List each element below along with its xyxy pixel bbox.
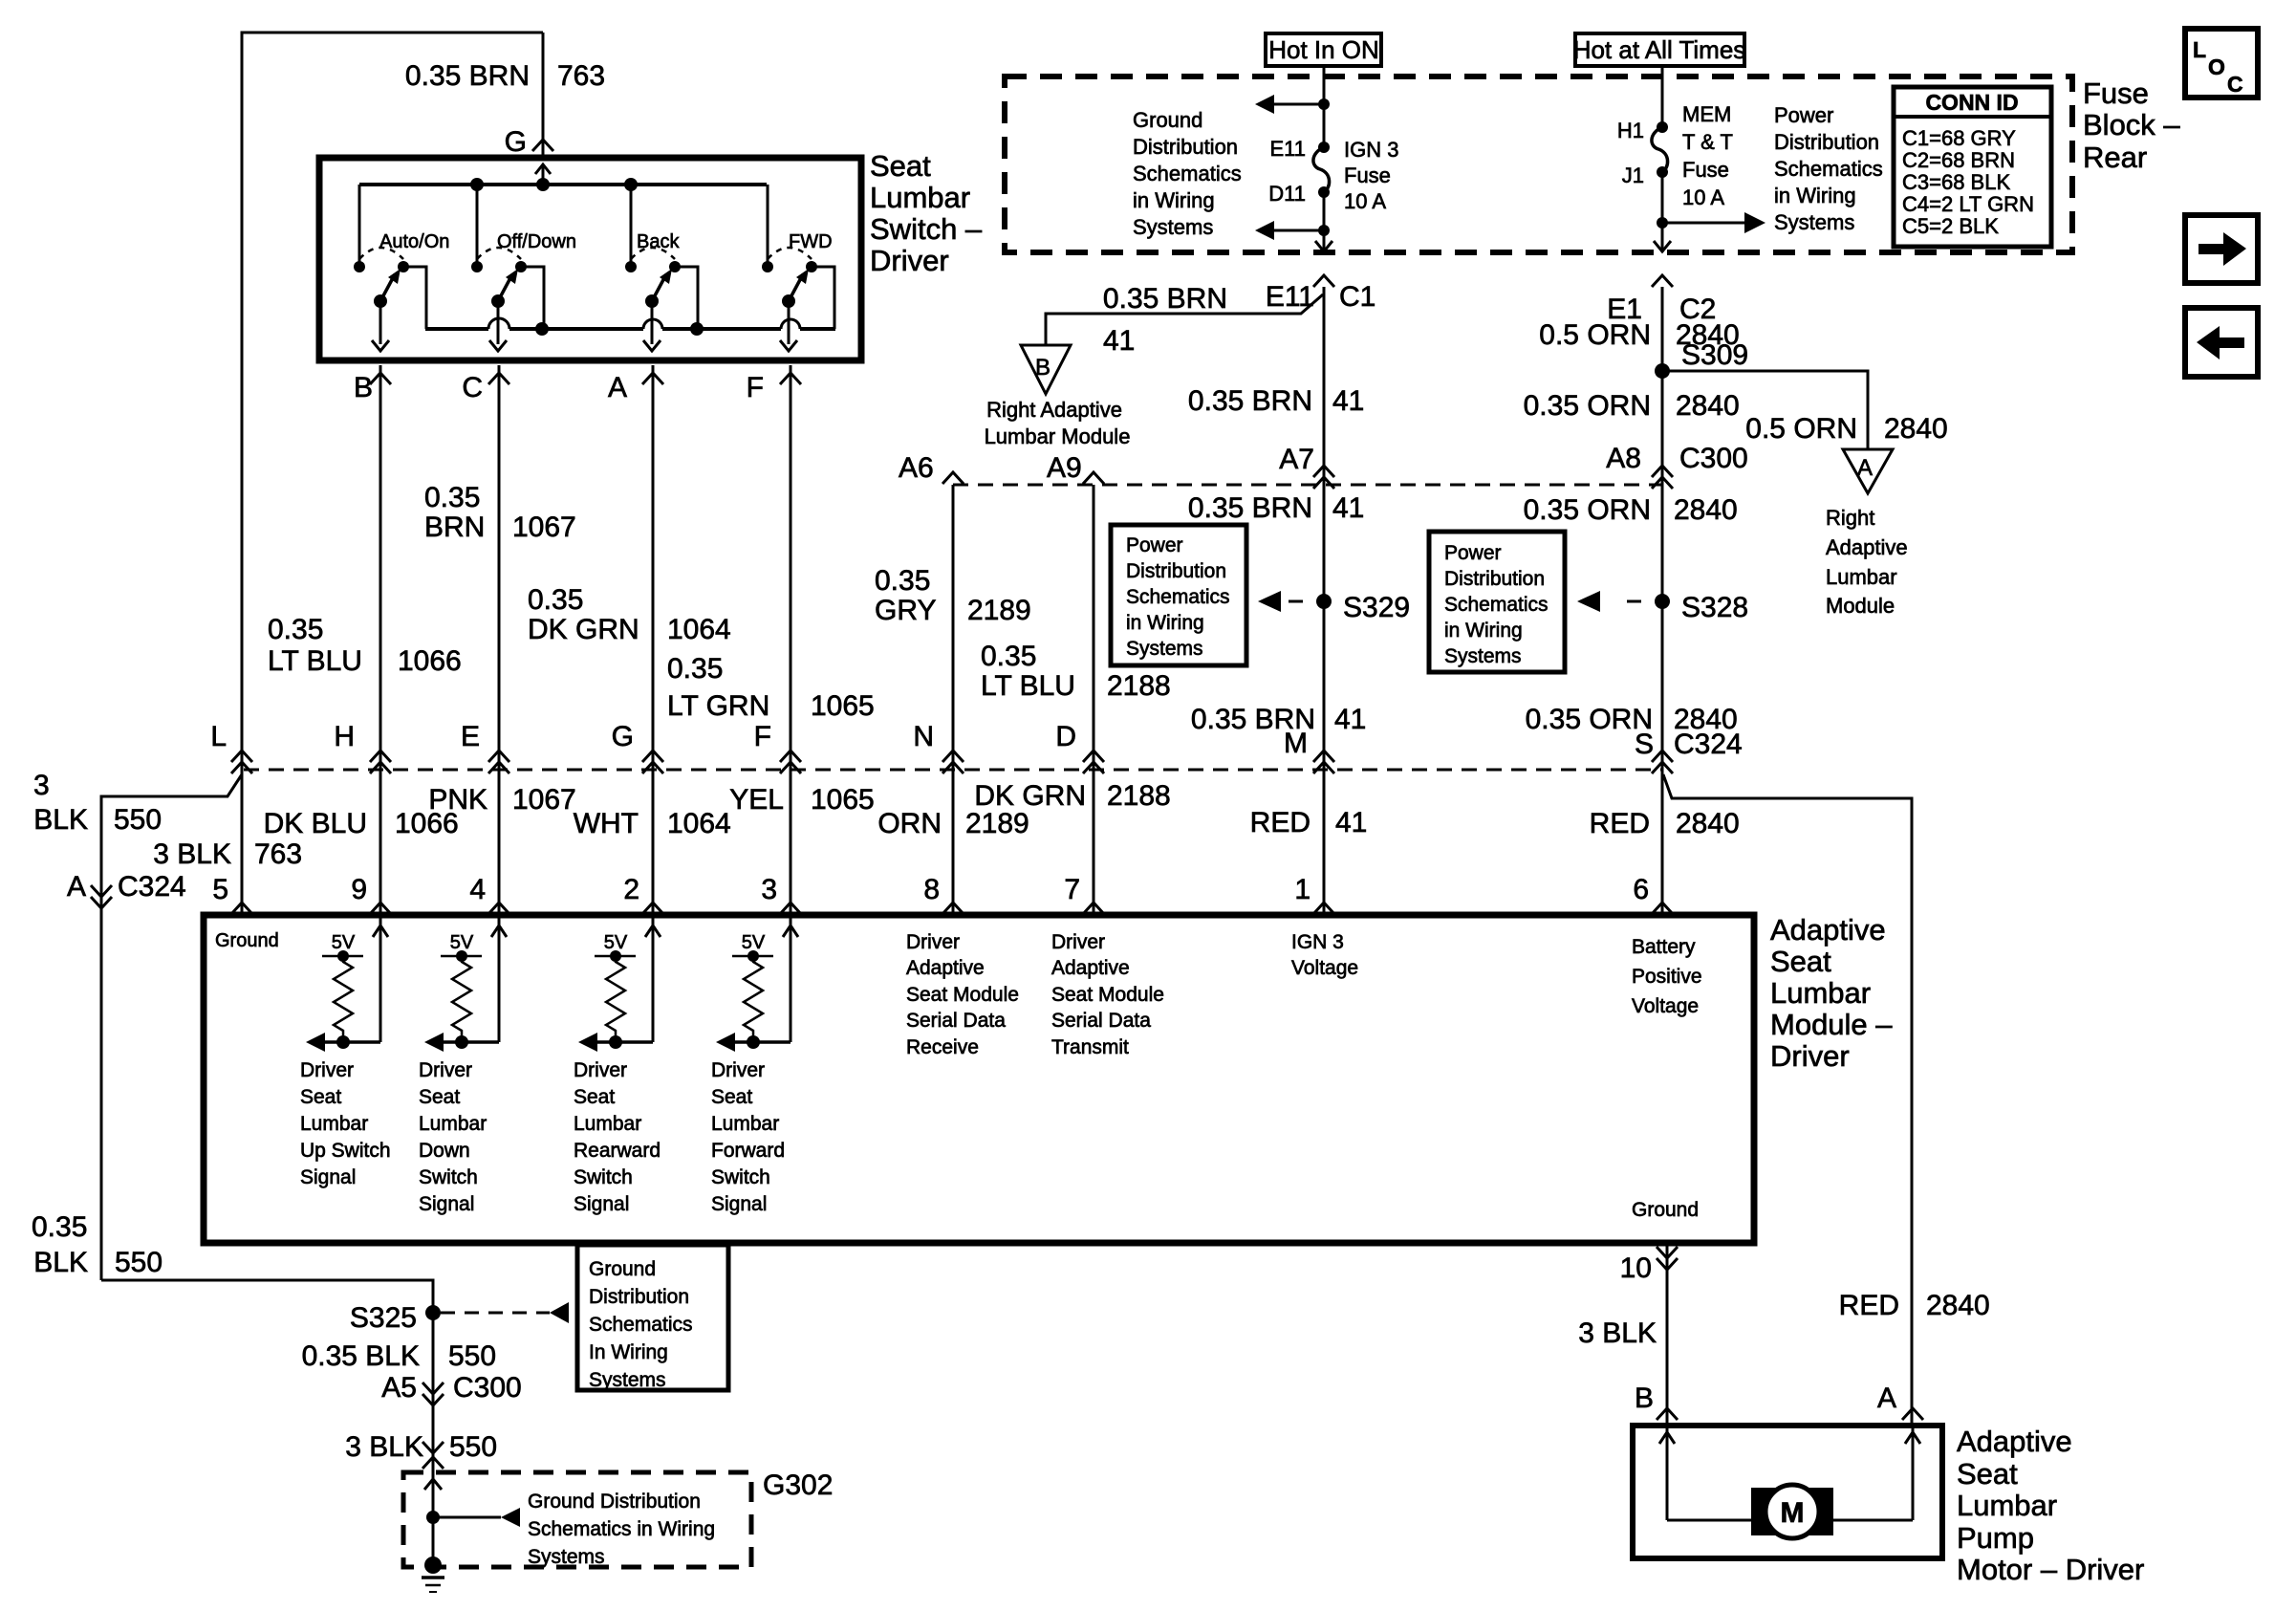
svg-text:A9: A9: [1047, 452, 1082, 484]
svg-text:Fuse: Fuse: [1344, 163, 1391, 187]
svg-text:C4=2 LT GRN: C4=2 LT GRN: [1902, 192, 2034, 216]
switch pin B chevron: [370, 373, 391, 384]
motor pin B chevron: [1657, 1408, 1678, 1420]
svg-text:5V: 5V: [742, 932, 766, 953]
wire C2 down to S: [1661, 287, 1664, 770]
switch pin A chevron: [642, 373, 663, 384]
svg-text:41: 41: [1335, 807, 1367, 838]
svg-text:in Wiring: in Wiring: [1774, 184, 1856, 207]
svg-text:41: 41: [1332, 385, 1364, 417]
svg-text:Signal: Signal: [711, 1193, 767, 1215]
connector chevron E1/C2: [1652, 275, 1673, 287]
connector chevrons A8: [1652, 466, 1673, 477]
svg-text:Hot In ON: Hot In ON: [1268, 35, 1379, 64]
svg-text:Power: Power: [1774, 103, 1833, 127]
connector chevron A9: [1083, 472, 1104, 484]
connector chevron A6: [942, 472, 964, 484]
svg-text:1065: 1065: [811, 690, 875, 722]
module input wire pin x=398: [379, 918, 382, 1042]
Power Distribution box (S328): [1429, 532, 1565, 672]
svg-text:Seat: Seat: [711, 1086, 752, 1108]
svg-text:S325: S325: [350, 1302, 417, 1334]
svg-text:2840: 2840: [1676, 808, 1740, 839]
switch FWD blade drop wire: [788, 301, 791, 344]
svg-text:RED: RED: [1839, 1290, 1899, 1321]
svg-text:D: D: [1055, 721, 1076, 752]
svg-text:550: 550: [114, 804, 162, 836]
lower bus junction dots: [535, 322, 549, 336]
svg-text:T & T: T & T: [1682, 130, 1733, 154]
svg-text:0.5 ORN: 0.5 ORN: [1539, 319, 1651, 351]
svg-text:10 A: 10 A: [1682, 185, 1724, 209]
svg-text:C: C: [2227, 72, 2243, 97]
svg-text:Systems: Systems: [1126, 638, 1203, 660]
wire pin B down to connector row: [379, 365, 382, 770]
svg-text:PNK: PNK: [428, 784, 487, 816]
fuse block dashed border: [1005, 76, 2072, 252]
svg-text:LT GRN: LT GRN: [667, 690, 769, 722]
svg-text:Lumbar: Lumbar: [1957, 1489, 2057, 1522]
svg-text:Schematics: Schematics: [1444, 594, 1549, 616]
svg-text:WHT: WHT: [574, 808, 639, 839]
svg-text:In Wiring: In Wiring: [589, 1341, 668, 1363]
svg-text:Voltage: Voltage: [1632, 995, 1699, 1017]
svg-text:Right Adaptive: Right Adaptive: [986, 398, 1122, 422]
svg-text:10: 10: [1620, 1252, 1652, 1284]
resistor bottom junction x=483: [455, 1035, 468, 1049]
svg-text:Driver: Driver: [300, 1059, 354, 1081]
junction dot + arrow to Ground Distribution: [1318, 98, 1330, 110]
svg-text:Up Switch: Up Switch: [300, 1140, 391, 1162]
svg-text:0.35 BLK: 0.35 BLK: [302, 1340, 420, 1372]
svg-text:Signal: Signal: [300, 1166, 356, 1188]
svg-text:Motor – Driver: Motor – Driver: [1957, 1553, 2144, 1586]
svg-text:in Wiring: in Wiring: [1444, 620, 1523, 642]
svg-text:CONN ID: CONN ID: [1925, 90, 2018, 115]
svg-text:Lumbar: Lumbar: [300, 1113, 368, 1135]
svg-text:Systems: Systems: [589, 1369, 666, 1391]
svg-text:BRN: BRN: [424, 512, 485, 543]
svg-text:2840: 2840: [1674, 494, 1738, 526]
module box Adaptive Seat Lumbar Module - Driver: [204, 915, 1754, 1243]
svg-text:C324: C324: [118, 871, 186, 903]
svg-text:2840: 2840: [1676, 390, 1740, 422]
svg-text:Adaptive: Adaptive: [906, 957, 985, 979]
svg-text:Distribution: Distribution: [1133, 135, 1238, 159]
motor box Adaptive Seat Lumbar Pump Motor - Driver: [1633, 1426, 1942, 1558]
module pin 7 chevron: [1083, 903, 1104, 914]
svg-text:0.35 ORN: 0.35 ORN: [1524, 390, 1651, 422]
svg-text:F: F: [754, 721, 771, 752]
connector chevrons G: [642, 751, 663, 762]
svg-text:763: 763: [557, 60, 605, 92]
resistor bottom junction x=788: [747, 1035, 760, 1049]
resistor x=644: [606, 956, 625, 1042]
switch Off/Down bus drop: [476, 185, 479, 267]
svg-text:L: L: [2193, 37, 2206, 62]
svg-text:A6: A6: [899, 452, 934, 484]
branch wire L to ground run: [101, 774, 242, 1280]
svg-text:Block –: Block –: [2083, 108, 2180, 142]
dashed connector line A6-A8: [953, 484, 1662, 487]
motor wire B side: [1666, 1426, 1669, 1520]
svg-text:Systems: Systems: [528, 1546, 605, 1568]
svg-text:1066: 1066: [398, 645, 462, 677]
svg-text:1065: 1065: [811, 784, 875, 816]
svg-text:RED: RED: [1590, 808, 1650, 839]
svg-text:Signal: Signal: [419, 1193, 474, 1215]
fuse IGN 3 element: [1313, 147, 1330, 192]
svg-text:BLK: BLK: [33, 1247, 88, 1278]
Ground Distribution box (S325): [577, 1245, 728, 1390]
module input wire pin x=522: [498, 918, 501, 1042]
svg-text:C: C: [462, 372, 483, 403]
svg-text:A: A: [608, 372, 627, 403]
svg-text:763: 763: [254, 838, 302, 870]
wire pin6 branch to motor A: [1663, 774, 1912, 1426]
junction dot + arrow right: [1657, 217, 1668, 229]
svg-text:41: 41: [1334, 704, 1366, 735]
svg-text:C324: C324: [1674, 729, 1743, 760]
svg-text:0.35 BRN: 0.35 BRN: [1188, 492, 1312, 524]
svg-text:Switch: Switch: [574, 1166, 633, 1188]
svg-text:1067: 1067: [512, 512, 576, 543]
svg-text:O: O: [2208, 54, 2225, 79]
svg-text:8: 8: [923, 874, 940, 905]
motor pin A chevron: [1902, 1408, 1923, 1420]
svg-text:Distribution: Distribution: [1126, 560, 1226, 582]
svg-text:2189: 2189: [967, 595, 1031, 626]
resistor bottom junction x=644: [609, 1035, 622, 1049]
wire 0.35 BRN 763 from switch to left edge (top horizontal + left vertical run): [242, 33, 543, 770]
svg-text:Positive: Positive: [1632, 966, 1702, 988]
svg-text:6: 6: [1633, 874, 1649, 905]
svg-text:Seat: Seat: [1770, 945, 1831, 978]
svg-text:0.35 BRN: 0.35 BRN: [405, 60, 530, 92]
ref triangle A: [1843, 449, 1893, 493]
connector chevrons M: [1313, 751, 1334, 762]
svg-text:Schematics: Schematics: [1133, 162, 1242, 185]
connector chevrons A5/C300 down: [422, 1382, 444, 1394]
svg-text:Switch: Switch: [419, 1166, 478, 1188]
svg-text:0.35 BRN: 0.35 BRN: [1188, 385, 1312, 417]
switch Back contacts: [625, 261, 637, 272]
svg-text:YEL: YEL: [729, 784, 784, 816]
ground run to S325: [101, 1280, 433, 1565]
svg-text:GRY: GRY: [875, 595, 936, 626]
Power Distribution box (S329): [1111, 525, 1246, 665]
connector chevrons F2: [780, 751, 801, 762]
svg-text:Systems: Systems: [1774, 210, 1854, 234]
svg-text:Ground: Ground: [215, 930, 279, 951]
svg-text:3: 3: [33, 770, 50, 801]
svg-text:Ground: Ground: [1632, 1199, 1699, 1221]
branch wire to B triangle: [1046, 294, 1323, 345]
svg-text:Driver: Driver: [711, 1059, 765, 1081]
svg-text:N: N: [913, 721, 934, 752]
svg-text:A: A: [67, 871, 86, 903]
ground symbol: [424, 1557, 442, 1574]
svg-text:RED: RED: [1250, 807, 1310, 838]
resistor x=788: [744, 956, 763, 1042]
wire Hot In ON to IGN3 fuse: [1323, 66, 1326, 147]
svg-text:E: E: [461, 721, 480, 752]
svg-text:Ground Distribution: Ground Distribution: [528, 1491, 701, 1513]
svg-text:Battery: Battery: [1632, 936, 1696, 958]
svg-text:C300: C300: [1679, 443, 1748, 474]
exit arrow down (MEM): [1654, 241, 1671, 251]
svg-text:ORN: ORN: [877, 808, 942, 839]
svg-text:G302: G302: [763, 1469, 833, 1501]
svg-text:Ground: Ground: [1133, 108, 1202, 132]
svg-text:M: M: [1284, 728, 1308, 759]
svg-text:A: A: [1857, 455, 1873, 481]
wire A9/D down: [1093, 485, 1095, 770]
svg-text:Power: Power: [1126, 534, 1183, 556]
connector chevrons E: [488, 751, 509, 762]
connector chevrons A/C324 down: [91, 885, 112, 897]
svg-text:Seat: Seat: [419, 1086, 460, 1108]
Hot at All Times tag box: [1575, 33, 1744, 66]
svg-text:Receive: Receive: [906, 1036, 979, 1058]
junction dot + arrow 2: [1318, 225, 1330, 236]
wire below MEM fuse: [1661, 172, 1664, 252]
switch Back bus drop: [630, 185, 633, 267]
svg-text:0.35: 0.35: [32, 1211, 87, 1243]
wire Hot at All Times to MEM fuse: [1661, 66, 1664, 127]
dashed arrow S329 to box: [1289, 600, 1311, 603]
svg-text:Lumbar: Lumbar: [1826, 565, 1897, 589]
svg-text:Adaptive: Adaptive: [1051, 957, 1130, 979]
svg-text:2840: 2840: [1926, 1290, 1990, 1321]
svg-text:Voltage: Voltage: [1291, 957, 1358, 979]
svg-text:D11: D11: [1268, 182, 1306, 206]
svg-text:1064: 1064: [667, 808, 731, 839]
svg-text:G: G: [505, 126, 527, 158]
svg-text:A7: A7: [1279, 444, 1314, 475]
wire into module pin 5: [241, 770, 244, 915]
wire C1 down to A7: [1323, 287, 1326, 770]
wire below IGN3 fuse: [1323, 192, 1326, 252]
svg-text:Driver: Driver: [1770, 1039, 1850, 1073]
svg-text:3 BLK: 3 BLK: [345, 1431, 423, 1463]
module pin 4 chevron: [488, 903, 509, 914]
fuse MEM element: [1652, 127, 1668, 172]
svg-text:in Wiring: in Wiring: [1133, 188, 1215, 212]
switch FWD bus drop: [767, 185, 769, 267]
svg-text:0.35 ORN: 0.35 ORN: [1526, 704, 1653, 735]
switch Back right contact wire: [675, 267, 698, 329]
svg-text:C5=2 BLK: C5=2 BLK: [1902, 214, 1999, 238]
svg-text:Auto/On: Auto/On: [379, 231, 449, 252]
switch Auto/On bus drop: [358, 185, 361, 267]
svg-text:B: B: [1035, 355, 1051, 381]
svg-text:550: 550: [449, 1431, 497, 1463]
wire G drop into switch box: [542, 33, 545, 158]
svg-text:Hot at All Times: Hot at All Times: [1573, 35, 1746, 64]
module input wire pin x=683: [652, 918, 655, 1042]
svg-text:LT BLU: LT BLU: [981, 670, 1075, 702]
svg-text:3 BLK: 3 BLK: [1578, 1317, 1657, 1349]
switch box Seat Lumbar Switch - Driver: [319, 158, 861, 360]
connector chevrons A7: [1313, 466, 1334, 477]
arrow up into G pin inside box: [542, 164, 545, 185]
svg-text:Module: Module: [1826, 594, 1895, 618]
svg-text:Driver: Driver: [906, 931, 960, 953]
wire into module pin 9: [379, 770, 382, 915]
svg-text:Schematics: Schematics: [589, 1314, 693, 1336]
svg-text:0.35: 0.35: [268, 614, 323, 645]
svg-text:L: L: [210, 721, 227, 752]
connector chevrons to G302: [422, 1442, 444, 1453]
switch Auto/On dashed arc: [359, 248, 403, 259]
svg-text:7: 7: [1064, 874, 1080, 905]
svg-text:Adaptive: Adaptive: [1826, 535, 1908, 559]
svg-text:S309: S309: [1681, 339, 1748, 371]
svg-text:Ground: Ground: [589, 1258, 656, 1280]
svg-text:0.35: 0.35: [981, 641, 1036, 672]
svg-text:H1: H1: [1617, 119, 1644, 142]
svg-text:S329: S329: [1343, 592, 1410, 623]
wire into module pin 8: [952, 770, 955, 915]
svg-text:Distribution: Distribution: [589, 1286, 689, 1308]
switch Auto/On contacts: [354, 261, 365, 272]
svg-text:0.35 ORN: 0.35 ORN: [1524, 494, 1651, 526]
svg-text:B: B: [1635, 1382, 1654, 1414]
svg-text:Rear: Rear: [2083, 141, 2147, 174]
module pin 6 chevron: [1652, 903, 1673, 914]
svg-text:J1: J1: [1622, 163, 1644, 187]
splice dot S309: [1655, 363, 1670, 379]
svg-text:Driver: Driver: [419, 1059, 472, 1081]
svg-text:2188: 2188: [1107, 670, 1171, 702]
G302 junction dot + arrow: [426, 1511, 440, 1524]
svg-text:F: F: [747, 372, 764, 403]
svg-text:H: H: [334, 721, 355, 752]
connector chevrons N: [942, 751, 964, 762]
bus wire inside switch box: [359, 183, 767, 186]
svg-text:Systems: Systems: [1133, 215, 1213, 239]
svg-text:C300: C300: [453, 1372, 522, 1404]
switch Auto/On blade drop wire: [379, 301, 382, 344]
connector chevrons D: [1083, 751, 1104, 762]
switch Off/Down dashed arc: [477, 248, 521, 259]
svg-text:C1=68 GRY: C1=68 GRY: [1902, 126, 2016, 150]
svg-text:Pump: Pump: [1957, 1521, 2034, 1555]
svg-text:MEM: MEM: [1682, 102, 1731, 126]
fuse MEM terminals H1 J1: [1657, 121, 1668, 133]
wire pin 10 to motor B: [1666, 1243, 1669, 1426]
svg-text:Power: Power: [1444, 542, 1502, 564]
svg-text:Driver: Driver: [574, 1059, 627, 1081]
svg-text:Systems: Systems: [1444, 645, 1522, 667]
svg-text:2840: 2840: [1884, 413, 1948, 445]
svg-text:C2=68 BRN: C2=68 BRN: [1902, 148, 2015, 172]
svg-text:C3=68 BLK: C3=68 BLK: [1902, 170, 2010, 194]
svg-text:Lumbar: Lumbar: [419, 1113, 487, 1135]
splice dot S329: [1316, 594, 1332, 609]
svg-text:S: S: [1635, 729, 1654, 760]
motor M symbol: [1751, 1488, 1776, 1535]
svg-text:1067: 1067: [512, 784, 576, 816]
svg-text:S328: S328: [1681, 592, 1748, 623]
connector chevron G: [532, 140, 553, 151]
switch Auto/On blade: [380, 274, 395, 301]
svg-text:Distribution: Distribution: [1774, 130, 1879, 154]
svg-text:DK GRN: DK GRN: [528, 614, 639, 645]
svg-text:Transmit: Transmit: [1051, 1036, 1129, 1058]
connector chevron E11/C1: [1313, 275, 1334, 287]
wire A6/N down: [952, 485, 955, 770]
connector chevrons L: [231, 751, 252, 762]
svg-text:4: 4: [469, 874, 486, 905]
svg-text:Signal: Signal: [574, 1193, 629, 1215]
svg-text:Serial Data: Serial Data: [906, 1010, 1006, 1032]
svg-text:1064: 1064: [667, 614, 731, 645]
exit arrow down (IGN3): [1315, 241, 1332, 251]
svg-text:1: 1: [1294, 874, 1310, 905]
svg-text:in Wiring: in Wiring: [1126, 612, 1204, 634]
switch Off/Down blade: [498, 274, 512, 301]
svg-text:Down: Down: [419, 1140, 470, 1162]
prev page arrow icon: [2185, 308, 2258, 377]
switch pin C chevron: [488, 373, 509, 384]
svg-text:DK GRN: DK GRN: [974, 780, 1086, 812]
wire into module pin 7: [1093, 770, 1095, 915]
wire into module pin 2: [652, 770, 655, 915]
svg-text:Fuse: Fuse: [2083, 76, 2149, 110]
switch Off/Down blade drop wire: [497, 301, 500, 344]
svg-text:Switch: Switch: [711, 1166, 770, 1188]
svg-text:Adaptive: Adaptive: [1957, 1425, 2072, 1458]
svg-text:G: G: [612, 721, 634, 752]
svg-text:Seat Module: Seat Module: [1051, 984, 1164, 1006]
svg-text:Schematics in Wiring: Schematics in Wiring: [528, 1518, 715, 1540]
LOC page icon: [2185, 29, 2258, 98]
module pin 8 chevron: [942, 903, 964, 914]
svg-text:9: 9: [351, 874, 367, 905]
module pin 1 chevron: [1313, 903, 1334, 914]
svg-text:C1: C1: [1339, 281, 1375, 313]
resistor bottom junction x=359: [336, 1035, 350, 1049]
svg-text:Adaptive: Adaptive: [1770, 913, 1886, 947]
svg-text:Seat: Seat: [300, 1086, 341, 1108]
svg-text:Schematics: Schematics: [1126, 586, 1230, 608]
svg-text:E11: E11: [1269, 137, 1306, 161]
svg-text:41: 41: [1103, 325, 1135, 357]
wire into module pin 1: [1323, 770, 1326, 915]
svg-text:Seat: Seat: [870, 149, 931, 183]
resistor x=359: [334, 956, 353, 1042]
wire pin F down to connector row: [790, 365, 792, 770]
svg-text:550: 550: [115, 1247, 162, 1278]
svg-text:FWD: FWD: [789, 231, 833, 252]
svg-text:3: 3: [761, 874, 777, 905]
switch Back blade drop wire: [651, 301, 654, 344]
svg-text:Serial Data: Serial Data: [1051, 1010, 1151, 1032]
svg-text:Lumbar: Lumbar: [1770, 976, 1871, 1010]
lower bus inside switch box: [425, 327, 488, 331]
Hot In ON tag box: [1266, 33, 1381, 66]
switch FWD dashed arc: [768, 248, 812, 259]
svg-text:5V: 5V: [604, 932, 628, 953]
svg-text:5: 5: [212, 874, 228, 905]
splice dot S328: [1655, 594, 1670, 609]
svg-text:Distribution: Distribution: [1444, 568, 1545, 590]
switch Back blade: [652, 274, 666, 301]
svg-text:0.35: 0.35: [528, 584, 583, 616]
svg-text:Seat: Seat: [1957, 1457, 2018, 1491]
